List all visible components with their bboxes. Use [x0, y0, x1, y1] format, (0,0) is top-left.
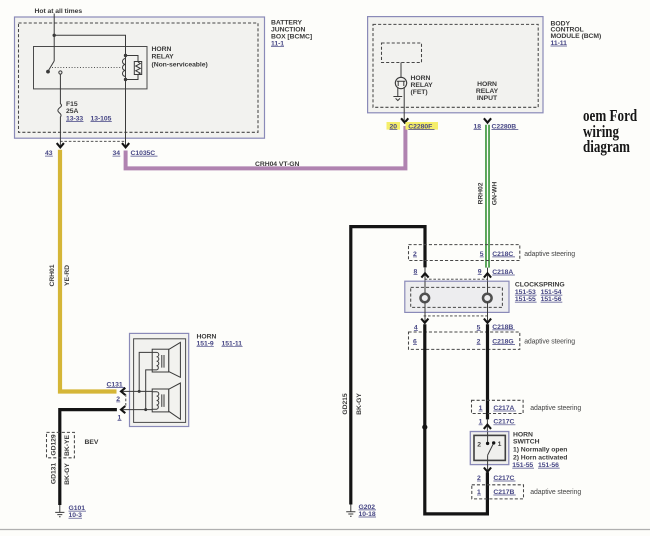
- clockspring outline: [405, 281, 509, 312]
- wire switch bottom: [487, 455, 489, 472]
- speaker 1 coil: [152, 352, 159, 369]
- relay switch blade contact dot: [46, 70, 50, 74]
- BCM inner dashed outline: [373, 24, 538, 107]
- pin 5 arrow: [484, 319, 491, 323]
- svg-text:GD129: GD129: [50, 434, 57, 456]
- ground G202: [346, 505, 355, 517]
- wire FET source to ground: [397, 88, 399, 97]
- speaker 2 coil box: [152, 389, 169, 412]
- svg-text:BK-GY: BK-GY: [356, 393, 363, 415]
- wire speaker 1 top branch: [139, 352, 152, 391]
- wire horn pin 1 feed: [121, 409, 152, 411]
- ground BCM internal: [393, 97, 402, 101]
- battery junction box BJB outline: [15, 17, 265, 138]
- svg-text:BOX [BCMC]: BOX [BCMC]: [271, 33, 312, 40]
- wire resistor bottom to coil: [126, 75, 139, 80]
- connector C1035C dashed line: [60, 140, 126, 142]
- wire speaker 1 bottom branch: [146, 370, 153, 410]
- clockspring inner dashed outline: [411, 287, 503, 307]
- wire coil to resistor top: [126, 56, 139, 62]
- relay switch blade: [48, 61, 54, 71]
- connector C218G dashed box: [409, 332, 520, 349]
- pin 20 arrow: [401, 118, 408, 122]
- svg-text:2) Horn activated: 2) Horn activated: [513, 454, 567, 461]
- speaker 2 cone: [169, 383, 181, 419]
- wire CRH01 YE-RD yellow: [60, 150, 117, 392]
- wire GD215 BK-GY to clockspring: [351, 227, 425, 505]
- svg-text:diagram: diagram: [583, 137, 630, 156]
- BJB inner dashed outline: [19, 23, 259, 132]
- horn switch pin 2 arrow: [484, 468, 491, 472]
- connector C217B dashed box: [472, 485, 524, 499]
- svg-text:adaptive steering: adaptive steering: [524, 339, 575, 346]
- svg-text:Hot at all times: Hot at all times: [35, 8, 83, 15]
- svg-text:GN-WH: GN-WH: [491, 182, 498, 206]
- pin 8 arrow: [421, 273, 428, 277]
- connector C217A dashed box: [472, 400, 524, 413]
- svg-text:adaptive steering: adaptive steering: [530, 489, 581, 496]
- wire into clockspring pin 8: [424, 267, 426, 281]
- wire to right coil: [487, 281, 489, 293]
- pin 43 arrow: [57, 143, 64, 147]
- clockspring right coil ring: [483, 294, 492, 303]
- wire hot feed: [53, 14, 55, 62]
- svg-text:adaptive steering: adaptive steering: [524, 251, 575, 258]
- horn switch pin 1 arrow: [484, 425, 491, 429]
- svg-text:HORN: HORN: [477, 81, 497, 88]
- svg-text:HORN: HORN: [152, 46, 172, 53]
- svg-text:HORN: HORN: [513, 432, 533, 439]
- svg-text:adaptive steering: adaptive steering: [530, 405, 581, 412]
- svg-text:YE-RD: YE-RD: [64, 265, 71, 286]
- wire coil straight: [125, 56, 127, 80]
- horn switch inner box: [474, 435, 505, 460]
- wire RRH02 GN-WH green: [485, 125, 490, 268]
- wire from left coil: [424, 302, 426, 322]
- svg-text:SWITCH: SWITCH: [513, 439, 540, 446]
- highlight C2280F: [406, 122, 439, 130]
- resistor zigzag: [136, 62, 141, 75]
- svg-text:(FET): (FET): [411, 89, 428, 96]
- relay switch fixed contact: [59, 71, 62, 74]
- node coil top dot: [124, 54, 127, 57]
- svg-text:BK-GY: BK-GY: [64, 463, 71, 485]
- horn switch outline: [470, 432, 509, 465]
- wire GD131 BK-GY black: [60, 410, 117, 505]
- wire gate to FET: [400, 63, 402, 78]
- transistor U1 horn relay FET circle: [395, 77, 406, 88]
- svg-text:CRH04 VT-GN: CRH04 VT-GN: [255, 161, 300, 168]
- connector C218C dashed box: [409, 245, 520, 261]
- switch blade: [488, 443, 494, 455]
- svg-text:GD215: GD215: [342, 393, 349, 415]
- clockspring left coil ring: [421, 294, 430, 303]
- svg-text:HORN: HORN: [197, 334, 217, 341]
- svg-text:RELAY: RELAY: [152, 54, 175, 61]
- bottom separator line: [0, 529, 650, 531]
- wire into clockspring pin 9: [487, 268, 489, 282]
- svg-text:CRH01: CRH01: [49, 264, 56, 286]
- wire clockspring pin 5 to horn switch: [486, 324, 489, 419]
- BCM logic dashed block: [382, 43, 422, 63]
- horn inner box: [134, 339, 186, 423]
- FET internal bar: [397, 81, 405, 86]
- wire CRH04 VT-GN violet: [126, 126, 406, 168]
- pin 9 arrow: [484, 273, 491, 277]
- svg-text:MODULE (BCM): MODULE (BCM): [551, 33, 602, 40]
- speaker 1 cone: [169, 342, 181, 377]
- speaker 1 core bars: [162, 355, 164, 368]
- svg-text:RRH02: RRH02: [477, 182, 484, 204]
- speaker 2 core bars: [162, 394, 164, 407]
- node splice dot: [422, 425, 427, 430]
- speaker 2 coil: [152, 392, 159, 409]
- horn pin 1 arrow: [121, 406, 125, 413]
- connector C131 dashed line: [125, 394, 127, 405]
- ground G101: [55, 505, 64, 517]
- horn pin 2 arrow: [121, 388, 125, 395]
- svg-text:(Non-serviceable): (Non-serviceable): [152, 61, 208, 68]
- svg-text:2: 2: [477, 441, 481, 448]
- node coil bottom dot: [124, 78, 127, 81]
- switch blade end dot: [492, 441, 495, 444]
- horn relay box: [34, 47, 148, 89]
- node junction dot: [53, 34, 56, 37]
- svg-text:INPUT: INPUT: [477, 95, 498, 102]
- relay coil K1: [123, 59, 126, 77]
- wire into horn switch: [486, 419, 488, 431]
- connector C218A dashed line: [425, 278, 488, 280]
- pin 18 arrow: [484, 118, 491, 122]
- body control module BCM outline: [368, 17, 543, 113]
- pin 34 arrow: [122, 143, 129, 147]
- svg-text:BEV: BEV: [85, 439, 99, 446]
- svg-text:RELAY: RELAY: [411, 82, 434, 89]
- GD129 option dashed box: [47, 432, 75, 457]
- node dot pin2 branch: [138, 390, 141, 393]
- resistor box (relay suppression): [134, 62, 141, 75]
- switch top contact dot: [486, 442, 489, 445]
- svg-text:F15: F15: [66, 101, 78, 108]
- connector C218B dashed line: [424, 315, 488, 317]
- svg-text:1: 1: [498, 441, 502, 448]
- speaker 1 coil box: [152, 349, 169, 372]
- node dot pin1 branch: [144, 408, 147, 411]
- svg-text:1) Normally open: 1) Normally open: [513, 447, 567, 454]
- wire white stripe: [487, 125, 489, 268]
- wire FET drain to pin 20: [403, 87, 405, 122]
- wire switch top contact: [487, 432, 489, 444]
- horn outline: [130, 333, 189, 426]
- wire clockspring pin 4 to ground path: [425, 324, 488, 514]
- fuse F15: [58, 104, 62, 117]
- wire fuse to pin 43: [59, 117, 61, 148]
- svg-text:BATTERY: BATTERY: [271, 19, 303, 26]
- svg-text:CLOCKSPRING: CLOCKSPRING: [515, 282, 565, 289]
- wire switch to fuse: [59, 74, 61, 104]
- svg-text:HORN: HORN: [411, 75, 431, 82]
- wire coil to pin 34: [125, 80, 127, 148]
- wire to left coil: [424, 281, 426, 293]
- relay actuation dotted link: [52, 67, 122, 69]
- svg-text:GD131: GD131: [50, 463, 57, 485]
- pin 4 arrow: [421, 319, 428, 323]
- svg-text:25A: 25A: [66, 108, 78, 115]
- wire to relay coil: [54, 35, 125, 55]
- svg-text:BK-YE: BK-YE: [64, 435, 71, 456]
- wire from right coil: [487, 302, 489, 322]
- highlight pin 20: [387, 122, 401, 130]
- wire horn pin 2 feed: [121, 390, 152, 392]
- svg-text:RELAY: RELAY: [476, 88, 499, 95]
